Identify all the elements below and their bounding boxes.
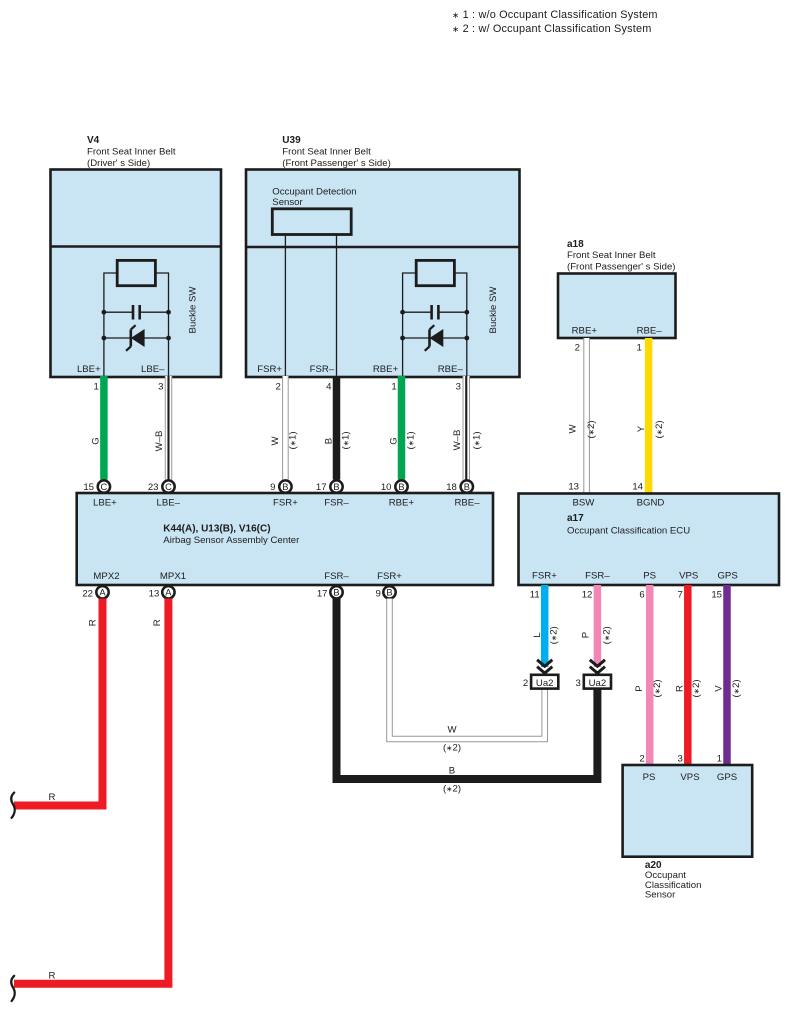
svg-text:10: 10 — [381, 482, 392, 493]
svg-text:FSR–: FSR– — [310, 364, 335, 375]
svg-text:U39: U39 — [282, 135, 301, 146]
svg-text:P: P — [581, 632, 592, 638]
connector Ua2 (left) — [531, 675, 558, 689]
svg-text:A: A — [99, 588, 106, 598]
pin 22 connector A (AB MPX2) — [82, 586, 108, 599]
svg-text:B: B — [449, 765, 455, 776]
svg-text:B: B — [323, 438, 334, 444]
chevron arrows into Ua2 right — [590, 660, 605, 676]
svg-text:RBE+: RBE+ — [572, 326, 598, 337]
svg-text:K44(A), U13(B), V16(C): K44(A), U13(B), V16(C) — [163, 524, 270, 535]
pin 17 connector B (AB FSR- top) — [316, 480, 343, 493]
junction dots V4 — [102, 310, 107, 315]
pin 15 connector C (AB LBE+) — [83, 480, 110, 493]
svg-text:∗ 2 : w/ Occupant Classificati: ∗ 2 : w/ Occupant Classification System — [452, 23, 651, 35]
svg-text:Airbag Sensor Assembly Center: Airbag Sensor Assembly Center — [163, 535, 300, 546]
wire W-B from V4 pin3 — [165, 376, 173, 480]
svg-text:Front Seat Inner Belt: Front Seat Inner Belt — [282, 147, 371, 158]
U39 internal divider — [246, 246, 520, 249]
pin 13 connector A (AB MPX1) — [149, 586, 175, 599]
svg-text:4: 4 — [326, 382, 332, 393]
svg-text:2: 2 — [523, 678, 528, 689]
svg-text:G: G — [90, 437, 101, 444]
wire R from MPX1 to page link — [14, 599, 168, 984]
svg-text:17: 17 — [316, 482, 327, 493]
svg-text:9: 9 — [270, 482, 275, 493]
wire ODS left lead (FSR+) — [284, 235, 286, 376]
component a20 Occupant Classification Sensor box — [623, 765, 753, 857]
svg-text:PS: PS — [643, 571, 656, 582]
svg-text:(∗1): (∗1) — [340, 431, 351, 449]
svg-text:13: 13 — [568, 482, 579, 493]
component a18 header — [567, 239, 675, 272]
svg-text:W: W — [568, 424, 579, 434]
wire U39 left vertical (RBE+ internal) — [403, 273, 416, 376]
svg-text:W: W — [447, 724, 457, 735]
svg-text:LBE+: LBE+ — [93, 498, 117, 509]
wire G from U39 pin1 — [398, 376, 406, 480]
svg-text:1: 1 — [717, 754, 722, 765]
svg-text:17: 17 — [317, 588, 328, 599]
wire Y from a18 RBE- — [645, 338, 653, 493]
svg-text:G: G — [388, 437, 399, 444]
svg-text:FSR+: FSR+ — [532, 571, 557, 582]
svg-text:Occupant Detection: Occupant Detection — [272, 186, 356, 197]
svg-text:(Front Passenger' s Side): (Front Passenger' s Side) — [282, 158, 390, 169]
svg-text:R: R — [49, 971, 56, 982]
svg-text:22: 22 — [82, 588, 93, 599]
wire L from a17 FSR+ — [541, 585, 549, 667]
component a18 box — [558, 274, 676, 339]
svg-text:3: 3 — [677, 754, 682, 765]
chevron arrows into Ua2 left — [537, 660, 552, 676]
wire V from a17 GPS to a20 — [723, 585, 731, 766]
svg-text:Ua2: Ua2 — [536, 678, 554, 689]
svg-text:BGND: BGND — [637, 498, 665, 509]
svg-text:LBE+: LBE+ — [77, 364, 101, 375]
svg-text:2: 2 — [639, 754, 644, 765]
svg-text:(∗1): (∗1) — [406, 431, 417, 449]
svg-text:(Front Passenger' s Side): (Front Passenger' s Side) — [567, 261, 675, 272]
wire R from a17 VPS to a20 — [684, 585, 692, 766]
pin 9 connector B (AB FSR+ bottom) — [376, 586, 396, 599]
svg-text:FSR+: FSR+ — [377, 571, 402, 582]
component V4 box — [51, 170, 222, 378]
page continuation squiggle (MPX2) — [11, 793, 14, 818]
svg-text:Front Seat Inner Belt: Front Seat Inner Belt — [87, 147, 176, 158]
svg-text:(∗2): (∗2) — [654, 420, 665, 438]
svg-text:Buckle SW: Buckle SW — [488, 286, 499, 334]
svg-text:Occupant Classification ECU: Occupant Classification ECU — [567, 526, 690, 537]
svg-text:VPS: VPS — [680, 772, 699, 783]
a20 caption — [645, 860, 702, 901]
svg-text:PS: PS — [643, 772, 656, 783]
svg-text:(∗2): (∗2) — [652, 679, 663, 697]
svg-text:1: 1 — [94, 382, 99, 393]
pin 10 connector B (AB RBE+) — [381, 480, 408, 493]
occupant detection sensor box — [272, 209, 351, 235]
pin 23 connector C (AB LBE-) — [148, 480, 175, 493]
svg-text:7: 7 — [677, 590, 682, 601]
svg-text:V: V — [714, 685, 725, 692]
svg-text:15: 15 — [83, 482, 94, 493]
svg-text:RBE–: RBE– — [637, 326, 663, 337]
zener diode in U39 buckle switch — [403, 325, 467, 351]
connector Ua2 (right) — [584, 675, 611, 689]
svg-text:B: B — [333, 482, 339, 492]
svg-text:Buckle SW: Buckle SW — [188, 286, 199, 334]
svg-text:1: 1 — [637, 343, 642, 354]
svg-text:Front Seat Inner Belt: Front Seat Inner Belt — [567, 250, 656, 261]
svg-text:B: B — [386, 588, 392, 598]
svg-text:(∗2): (∗2) — [586, 420, 597, 438]
svg-text:13: 13 — [149, 588, 160, 599]
wire W from U39 pin2 — [282, 376, 289, 480]
svg-text:Sensor: Sensor — [272, 197, 303, 208]
svg-text:a18: a18 — [567, 239, 584, 250]
capacitor in V4 buckle switch — [104, 305, 169, 320]
svg-text:(Driver' s Side): (Driver' s Side) — [87, 158, 150, 169]
svg-text:LBE–: LBE– — [157, 498, 181, 509]
svg-text:C: C — [101, 482, 108, 492]
wire W from a18 RBE+ — [583, 338, 590, 493]
wire P from a17 PS to a20 — [646, 585, 654, 766]
svg-text:2: 2 — [575, 343, 580, 354]
svg-text:GPS: GPS — [717, 571, 737, 582]
wire R from MPX2 to page link — [14, 599, 103, 806]
svg-text:12: 12 — [582, 590, 593, 601]
svg-text:RBE+: RBE+ — [389, 498, 415, 509]
svg-text:11: 11 — [530, 590, 540, 601]
svg-text:(∗1): (∗1) — [287, 431, 298, 449]
svg-text:V4: V4 — [87, 135, 100, 146]
wire ODS right lead (FSR-) — [336, 235, 338, 376]
wire W from AB FSR+ to Ua2 (left) — [390, 599, 545, 740]
svg-text:FSR–: FSR– — [324, 498, 349, 509]
svg-text:W–B: W–B — [154, 431, 165, 452]
resistor in U39 buckle switch — [416, 260, 454, 285]
svg-text:BSW: BSW — [572, 498, 595, 509]
svg-text:W–B: W–B — [452, 430, 463, 451]
wire B from AB FSR- to Ua2 (right) — [337, 599, 598, 780]
label Occupant Detection Sensor — [272, 186, 356, 208]
svg-text:W: W — [270, 436, 281, 446]
pin 9 connector B (AB FSR+ top) — [270, 480, 291, 493]
svg-text:B: B — [398, 482, 404, 492]
svg-text:FSR–: FSR– — [324, 571, 349, 582]
svg-text:LBE–: LBE– — [141, 364, 165, 375]
svg-text:R: R — [152, 619, 163, 626]
svg-text:(∗2): (∗2) — [548, 626, 559, 644]
pin 17 connector B (AB FSR- bottom) — [317, 586, 343, 599]
svg-text:FSR–: FSR– — [585, 571, 610, 582]
svg-text:R: R — [674, 685, 685, 692]
svg-text:(∗2): (∗2) — [602, 626, 613, 644]
wire B from U39 pin4 — [333, 376, 341, 480]
svg-text:Ua2: Ua2 — [589, 678, 607, 689]
wire G from V4 pin1 — [100, 376, 108, 480]
svg-text:14: 14 — [632, 482, 643, 493]
component U39 box — [246, 170, 520, 378]
wire W-B from U39 pin3 — [463, 376, 471, 480]
svg-text:RBE–: RBE– — [454, 498, 480, 509]
capacitor in U39 buckle switch — [403, 305, 467, 320]
svg-text:P: P — [634, 685, 645, 691]
component U39 Front Seat Inner Belt (Front Passenger's Side) header — [282, 135, 390, 169]
svg-text:C: C — [165, 482, 172, 492]
component Airbag Sensor Assembly Center box — [77, 493, 493, 585]
svg-text:9: 9 — [376, 588, 381, 599]
svg-text:B: B — [282, 482, 288, 492]
svg-text:R: R — [88, 619, 99, 626]
svg-text:MPX1: MPX1 — [160, 571, 186, 582]
component V4 Front Seat Inner Belt (Driver's Side) header — [87, 135, 176, 169]
svg-text:(∗2): (∗2) — [691, 679, 702, 697]
svg-text:L: L — [532, 632, 543, 638]
svg-text:Sensor: Sensor — [645, 890, 676, 901]
svg-text:3: 3 — [158, 382, 163, 393]
svg-text:a17: a17 — [567, 513, 584, 524]
svg-text:3: 3 — [456, 382, 461, 393]
svg-text:∗ 1 : w/o Occupant Classificat: ∗ 1 : w/o Occupant Classification System — [452, 9, 658, 21]
svg-text:VPS: VPS — [679, 571, 698, 582]
svg-text:15: 15 — [711, 590, 722, 601]
svg-text:(∗2): (∗2) — [443, 743, 461, 754]
svg-text:R: R — [49, 792, 56, 803]
svg-text:FSR+: FSR+ — [273, 498, 298, 509]
page continuation squiggle (MPX1) — [11, 976, 14, 1001]
resistor in V4 buckle switch — [117, 260, 155, 285]
junction dots U39 — [400, 310, 405, 315]
wire U39 right vertical (RBE- internal) — [455, 273, 467, 376]
wire V4 left vertical (LBE+ internal) — [104, 273, 116, 376]
svg-text:Y: Y — [636, 425, 647, 432]
svg-text:MPX2: MPX2 — [93, 571, 119, 582]
zener diode in V4 buckle switch — [104, 325, 169, 351]
svg-text:RBE+: RBE+ — [373, 364, 399, 375]
svg-text:3: 3 — [576, 678, 581, 689]
svg-text:(∗2): (∗2) — [731, 679, 742, 697]
svg-text:6: 6 — [639, 590, 644, 601]
svg-text:2: 2 — [275, 382, 280, 393]
svg-text:1: 1 — [391, 382, 396, 393]
svg-text:23: 23 — [148, 482, 159, 493]
svg-text:A: A — [165, 588, 172, 598]
pin 18 connector B (AB RBE-) — [446, 480, 473, 493]
svg-text:RBE–: RBE– — [438, 364, 464, 375]
svg-text:(∗2): (∗2) — [443, 784, 461, 795]
wire P from a17 FSR- — [594, 585, 602, 667]
svg-text:18: 18 — [446, 482, 457, 493]
svg-text:(∗1): (∗1) — [472, 431, 483, 449]
svg-text:FSR+: FSR+ — [257, 364, 282, 375]
V4 internal divider — [51, 245, 222, 248]
svg-text:GPS: GPS — [717, 772, 737, 783]
svg-text:B: B — [333, 588, 339, 598]
component a17 Occupant Classification ECU box — [519, 494, 780, 586]
svg-text:B: B — [464, 482, 470, 492]
wire V4 right vertical (LBE- internal) — [156, 273, 169, 376]
